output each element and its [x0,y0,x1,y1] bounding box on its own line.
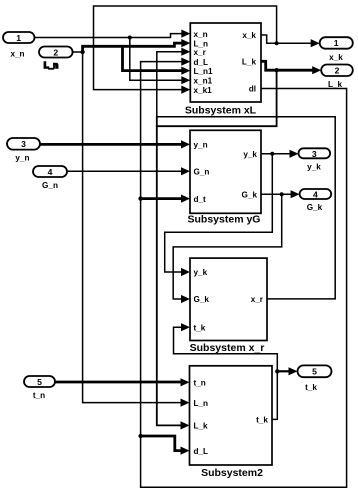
svg-text:L_n: L_n [44,61,59,70]
subsystem U2 Subsystem yG block [190,130,261,213]
svg-text:x_r: x_r [194,48,207,57]
svg-text:2: 2 [53,47,58,57]
wire L_k feedback down to U4 L_k [157,70,277,425]
arrow into outport 2 [312,66,321,74]
svg-text:t_n: t_n [194,379,206,388]
svg-text:3: 3 [21,139,26,149]
junction dl to U2 d_t [138,196,142,200]
arrow into U3 t_k [181,323,190,331]
wire x_k feedback loop to U1 x_k1 [94,6,277,90]
svg-text:t_n: t_n [33,391,45,400]
svg-text:d_t: d_t [194,195,207,204]
svg-text:Subsystem yG: Subsystem yG [188,213,261,225]
outport 1 oval [320,37,353,49]
U4 port labels [194,379,269,456]
arrow into U1 L_n1 [181,67,190,75]
U1 port labels [194,30,257,95]
arrow into U1 x_k1 [181,86,190,94]
svg-text:1: 1 [16,33,21,43]
wire dl branch thick to U4 d_L [141,436,181,451]
wire t_k branch to outport5 [277,370,289,372]
inport 3 oval [7,138,40,150]
wire G_k feedback to U3 G_k [173,194,282,299]
svg-text:x_n: x_n [194,30,208,39]
svg-text:t_k: t_k [256,416,268,425]
arrow into U1 L_n [181,39,190,47]
svg-text:x_k: x_k [242,31,256,40]
svg-text:5: 5 [37,377,42,387]
wire t_k output loop to U3 t_k [174,327,278,419]
svg-text:y_k: y_k [307,162,321,171]
wire y_k feedback to U3 y_k [165,154,273,272]
svg-text:d_L: d_L [194,58,209,67]
junction x_k feedback [275,41,279,45]
svg-text:5: 5 [312,366,317,376]
outport 2 oval [321,65,353,77]
svg-text:L_n1: L_n1 [194,67,214,76]
U2 port labels [194,141,258,204]
junction y_k feedback [270,152,274,156]
svg-text:3: 3 [312,149,317,159]
wire G_n from inport4 to U2 [67,170,181,172]
arrow into U4 L_n [181,399,190,407]
junction dl to U4 d_L [138,434,142,438]
svg-text:y_k: y_k [194,268,208,277]
svg-text:y_k: y_k [243,150,257,159]
svg-text:Subsystem x_r: Subsystem x_r [190,342,265,354]
wire dl output feedback loop [141,62,347,488]
svg-text:x_n: x_n [10,49,24,58]
arrow into U2 G_n [181,167,190,175]
wire y_n thick from inport3 to U2 [40,143,181,146]
junction G_k feedback [280,192,284,196]
wire L_n stub from inport2 [73,51,83,53]
inport 4 oval [33,166,67,177]
arrow into U1 d_L [181,58,190,66]
junction t_k to outport5 [275,369,279,373]
svg-text:L_k: L_k [242,58,257,67]
svg-text:1: 1 [334,38,339,48]
svg-text:L_n: L_n [194,399,209,408]
wire t_n thick from inport5 to U4 [55,381,181,384]
wire L_n branch down to U4 L_n [83,52,181,403]
svg-text:d_L: d_L [194,447,209,456]
arrow into U3 y_k [181,268,190,276]
subsystem U3 Subsystem x_r block [190,258,267,340]
arrow into U1 x_n1 [181,76,190,84]
inport 1 oval [3,32,35,43]
svg-text:G_k: G_k [194,295,210,304]
svg-text:t_k: t_k [305,383,317,392]
inport 5 oval [24,376,55,387]
svg-text:x_k: x_k [329,53,343,62]
arrow into U4 L_k [181,421,190,429]
outport 5 oval [298,365,332,377]
arrow into outport 4 [291,190,300,198]
wire y_k output to outport3 [261,153,290,155]
svg-text:G_n: G_n [42,181,58,190]
outport 4 oval [300,189,332,199]
svg-text:y_n: y_n [15,154,29,163]
svg-text:t_k: t_k [194,323,206,332]
wire dl branch thick to U2 d_t [141,197,181,200]
subsystem U1 Subsystem xL block [190,23,261,102]
arrow into U1 x_n [181,30,190,38]
wire G_k output to outport4 [261,193,291,195]
svg-text:Subsystem2: Subsystem2 [201,467,263,479]
arrow into outport 5 [289,367,298,375]
wire vertical connector x_r/L_k channel [156,116,158,127]
arrow into U2 d_t [181,195,190,203]
svg-text:4: 4 [48,167,53,177]
wire L_n thick to U1 L_n [83,43,182,52]
arrow into U4 t_n [181,378,190,386]
svg-text:L_k: L_k [194,422,209,431]
svg-text:G_k: G_k [242,190,258,199]
svg-text:x_n1: x_n1 [194,76,213,85]
wire L_k output thick to outport2 [261,61,313,70]
arrow into outport 1 [311,39,320,47]
inport 2 oval [39,47,73,58]
subsystem U4 Subsystem2 block [190,366,273,465]
svg-text:4: 4 [313,190,318,200]
arrow into U3 G_k [181,295,190,303]
arrow into outport 3 [290,150,299,158]
arrow into U1 x_r [181,48,190,56]
arrow into U2 y_n [181,140,190,148]
wire x_k output to outport1 [261,35,311,43]
junction x_n branch [128,36,132,40]
svg-text:G_k: G_k [307,203,323,212]
junction L_n [80,50,84,54]
svg-text:y_n: y_n [194,141,208,150]
svg-text:Subsystem xL: Subsystem xL [185,105,257,117]
outport 3 oval [299,148,331,158]
wire x_n from inport1 to U1 [35,34,183,38]
svg-text:x_r: x_r [251,295,264,304]
svg-text:x_k1: x_k1 [194,86,213,95]
svg-text:dl: dl [249,85,256,94]
wire x_r output feedback to U1 x_r [157,52,335,299]
wire L_n branch thick to U1 L_n1 [123,46,183,70]
svg-text:G_n: G_n [194,168,210,177]
arrow into U4 d_L [181,447,190,455]
U3 port labels [194,268,264,332]
junction L_k feedback [274,68,278,72]
wire x_n branch to U1 x_n1 [130,38,182,81]
svg-text:2: 2 [335,65,340,75]
